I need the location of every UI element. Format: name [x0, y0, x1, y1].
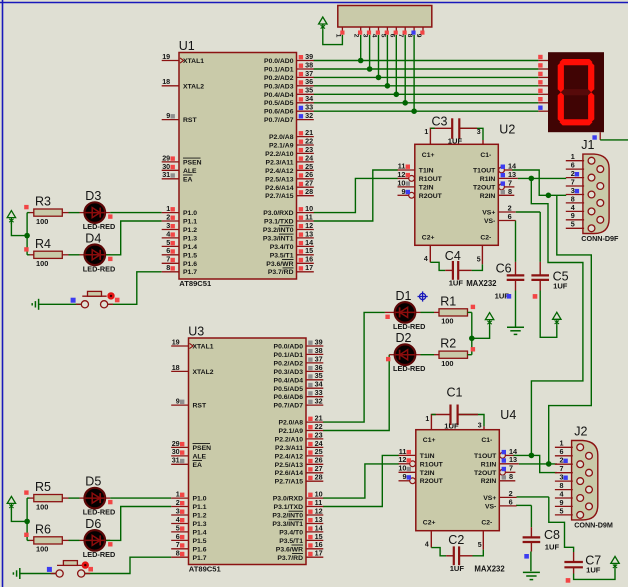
svg-text:CONN-D9M: CONN-D9M: [574, 520, 613, 529]
svg-text:7: 7: [397, 34, 404, 38]
svg-text:VS+: VS+: [483, 495, 496, 502]
svg-text:R2: R2: [440, 337, 456, 351]
svg-text:P2.3/A11: P2.3/A11: [266, 159, 294, 166]
svg-text:P1.3: P1.3: [193, 521, 207, 528]
svg-text:MAX232: MAX232: [474, 564, 505, 573]
svg-text:P1.1: P1.1: [183, 219, 197, 226]
svg-text:100: 100: [36, 259, 48, 268]
svg-text:ALE: ALE: [183, 168, 197, 175]
svg-text:T2OUT: T2OUT: [474, 470, 497, 477]
svg-text:P3.3/INT1: P3.3/INT1: [272, 521, 303, 528]
svg-text:T1OUT: T1OUT: [474, 453, 497, 460]
svg-text:P0.1/AD1: P0.1/AD1: [264, 67, 294, 74]
svg-text:P3.3/INT1: P3.3/INT1: [263, 235, 294, 242]
svg-text:6: 6: [508, 212, 512, 221]
svg-text:9: 9: [415, 34, 422, 38]
svg-text:C2-: C2-: [481, 520, 492, 527]
svg-text:1: 1: [335, 34, 342, 38]
svg-text:EA: EA: [183, 176, 193, 183]
svg-text:C1: C1: [447, 386, 463, 400]
svg-text:LED-RED: LED-RED: [83, 264, 115, 273]
svg-text:R2OUT: R2OUT: [420, 478, 444, 485]
svg-text:8: 8: [166, 263, 170, 272]
svg-text:19: 19: [162, 52, 170, 61]
svg-text:D2: D2: [396, 331, 412, 345]
svg-text:XTAL2: XTAL2: [183, 83, 204, 90]
svg-text:P0.2/AD2: P0.2/AD2: [264, 75, 294, 82]
svg-text:P0.5/AD5: P0.5/AD5: [264, 100, 294, 107]
svg-text:9: 9: [401, 187, 405, 196]
svg-text:P3.1/TXD: P3.1/TXD: [264, 219, 294, 226]
svg-text:C8: C8: [544, 528, 560, 542]
svg-text:C3: C3: [432, 115, 448, 129]
svg-text:P2.2/A10: P2.2/A10: [275, 436, 304, 443]
svg-text:LED-RED: LED-RED: [83, 508, 115, 517]
svg-text:T1OUT: T1OUT: [473, 168, 496, 175]
svg-text:P1.7: P1.7: [193, 555, 207, 562]
svg-text:D3: D3: [85, 189, 101, 203]
svg-text:17: 17: [305, 263, 313, 272]
svg-text:VS-: VS-: [485, 503, 496, 510]
svg-text:C1-: C1-: [481, 437, 492, 444]
svg-text:P1.0: P1.0: [183, 210, 197, 217]
svg-text:6: 6: [509, 497, 513, 506]
svg-text:T2IN: T2IN: [420, 470, 435, 477]
svg-text:C1+: C1+: [423, 437, 436, 444]
svg-text:100: 100: [441, 317, 453, 326]
svg-text:U2: U2: [499, 123, 515, 137]
svg-text:P2.5/A13: P2.5/A13: [265, 176, 294, 183]
svg-text:T1IN: T1IN: [420, 453, 435, 460]
svg-text:18: 18: [162, 77, 170, 86]
svg-text:P0.2/AD2: P0.2/AD2: [274, 360, 304, 367]
svg-text:1UF: 1UF: [553, 282, 568, 291]
svg-text:32: 32: [315, 397, 323, 406]
svg-text:D6: D6: [85, 517, 101, 531]
svg-text:P0.7/AD7: P0.7/AD7: [274, 403, 304, 410]
svg-text:R1IN: R1IN: [481, 461, 497, 468]
svg-text:28: 28: [315, 473, 323, 482]
svg-text:P1.5: P1.5: [193, 538, 207, 545]
svg-text:C2+: C2+: [423, 520, 436, 527]
svg-text:1UF: 1UF: [450, 564, 465, 573]
svg-text:P1.7: P1.7: [183, 269, 197, 276]
svg-text:P3.7/RD: P3.7/RD: [277, 555, 303, 562]
svg-text:P0.4/AD4: P0.4/AD4: [274, 377, 304, 384]
svg-text:LED-RED: LED-RED: [83, 222, 115, 231]
svg-text:R1OUT: R1OUT: [420, 461, 444, 468]
svg-text:EA: EA: [193, 462, 203, 469]
svg-text:D1: D1: [396, 289, 412, 303]
svg-text:D5: D5: [85, 475, 101, 489]
svg-text:CONN-D9F: CONN-D9F: [581, 234, 619, 243]
svg-text:P0.1/AD1: P0.1/AD1: [274, 352, 304, 359]
svg-text:AT89C51: AT89C51: [179, 279, 212, 288]
svg-text:P0.4/AD4: P0.4/AD4: [264, 92, 294, 99]
svg-text:32: 32: [305, 111, 313, 120]
svg-text:P2.0/A8: P2.0/A8: [278, 420, 303, 427]
svg-text:P2.2/A10: P2.2/A10: [265, 151, 294, 158]
svg-text:100: 100: [441, 359, 453, 368]
svg-text:8: 8: [406, 34, 413, 38]
svg-text:P3.2/INT0: P3.2/INT0: [263, 227, 294, 234]
svg-text:P1.4: P1.4: [183, 244, 197, 251]
svg-text:LED-RED: LED-RED: [393, 364, 425, 373]
svg-text:P0.6/AD6: P0.6/AD6: [264, 109, 294, 116]
svg-text:1UF: 1UF: [586, 565, 601, 574]
svg-text:U4: U4: [500, 408, 516, 422]
svg-text:31: 31: [172, 456, 180, 465]
svg-text:C1-: C1-: [480, 152, 491, 159]
svg-text:P3.6/WR: P3.6/WR: [276, 546, 303, 553]
svg-text:C4: C4: [445, 249, 461, 263]
svg-text:P1.2: P1.2: [193, 513, 207, 520]
svg-text:8: 8: [176, 549, 180, 558]
svg-text:P2.6/A14: P2.6/A14: [265, 185, 294, 192]
svg-text:P3.0/RXD: P3.0/RXD: [273, 496, 303, 503]
svg-text:8: 8: [509, 472, 513, 481]
svg-text:P3.0/RXD: P3.0/RXD: [263, 210, 293, 217]
svg-text:C6: C6: [496, 262, 512, 276]
svg-text:PSEN: PSEN: [193, 445, 212, 452]
svg-text:RST: RST: [193, 403, 207, 410]
svg-text:1UF: 1UF: [545, 543, 560, 552]
svg-text:R1OUT: R1OUT: [419, 176, 443, 183]
svg-text:P3.2/INT0: P3.2/INT0: [272, 513, 303, 520]
svg-text:P3.4/T0: P3.4/T0: [279, 529, 303, 536]
svg-text:VS+: VS+: [482, 210, 495, 217]
svg-text:T1IN: T1IN: [419, 168, 434, 175]
svg-text:T2IN: T2IN: [419, 184, 434, 191]
svg-text:1UF: 1UF: [449, 279, 464, 288]
svg-text:RST: RST: [183, 117, 197, 124]
svg-text:100: 100: [36, 545, 48, 554]
svg-text:5: 5: [379, 34, 386, 38]
svg-text:P1.0: P1.0: [193, 496, 207, 503]
svg-text:C1+: C1+: [422, 152, 435, 159]
svg-text:P1.6: P1.6: [183, 261, 197, 268]
svg-text:P0.0/AD0: P0.0/AD0: [264, 58, 294, 65]
svg-text:LED-RED: LED-RED: [393, 322, 425, 331]
svg-text:P1.3: P1.3: [183, 235, 197, 242]
svg-text:6: 6: [388, 34, 395, 38]
svg-text:4: 4: [371, 34, 378, 38]
svg-text:P2.4/A12: P2.4/A12: [275, 453, 304, 460]
svg-text:U1: U1: [179, 39, 195, 53]
svg-text:3: 3: [362, 34, 369, 38]
svg-text:P2.7/A15: P2.7/A15: [275, 479, 304, 486]
svg-text:T2OUT: T2OUT: [473, 184, 496, 191]
svg-text:R1IN: R1IN: [480, 176, 496, 183]
svg-text:P3.6/WR: P3.6/WR: [266, 261, 293, 268]
svg-text:P0.3/AD3: P0.3/AD3: [264, 83, 294, 90]
svg-text:PSEN: PSEN: [183, 159, 202, 166]
svg-text:5: 5: [478, 542, 482, 549]
svg-text:4: 4: [425, 542, 429, 549]
svg-text:5: 5: [560, 506, 564, 515]
svg-text:P1.5: P1.5: [183, 252, 197, 259]
svg-text:C2: C2: [448, 533, 464, 547]
svg-text:P0.6/AD6: P0.6/AD6: [274, 394, 304, 401]
svg-text:D4: D4: [85, 231, 101, 245]
svg-text:MAX232: MAX232: [466, 279, 497, 288]
svg-text:R6: R6: [35, 522, 51, 536]
svg-text:U3: U3: [188, 325, 204, 339]
svg-text:3: 3: [478, 423, 482, 430]
svg-text:5: 5: [477, 256, 481, 263]
svg-text:VS-: VS-: [484, 218, 495, 225]
svg-text:P2.1/A9: P2.1/A9: [278, 428, 303, 435]
svg-text:LED-RED: LED-RED: [83, 550, 115, 559]
svg-text:P2.0/A8: P2.0/A8: [269, 134, 294, 141]
svg-text:P2.4/A12: P2.4/A12: [265, 168, 294, 175]
svg-text:ALE: ALE: [193, 453, 207, 460]
svg-text:P3.5/T1: P3.5/T1: [270, 252, 294, 259]
svg-text:XTAL1: XTAL1: [193, 344, 214, 351]
svg-text:P0.3/AD3: P0.3/AD3: [274, 369, 304, 376]
svg-text:8: 8: [508, 187, 512, 196]
svg-text:P3.5/T1: P3.5/T1: [279, 538, 303, 545]
svg-text:P3.7/RD: P3.7/RD: [268, 269, 294, 276]
svg-text:P0.5/AD5: P0.5/AD5: [274, 386, 304, 393]
svg-text:5: 5: [571, 220, 575, 229]
svg-text:9: 9: [402, 472, 406, 481]
svg-text:4: 4: [424, 256, 428, 263]
svg-text:R1: R1: [440, 294, 456, 308]
svg-text:P1.4: P1.4: [193, 529, 207, 536]
svg-text:P2.7/A15: P2.7/A15: [265, 193, 294, 200]
svg-text:J2: J2: [574, 425, 587, 439]
svg-text:P1.6: P1.6: [193, 546, 207, 553]
svg-text:9: 9: [166, 111, 170, 120]
svg-text:XTAL1: XTAL1: [183, 58, 204, 65]
svg-text:9: 9: [176, 397, 180, 406]
svg-text:P2.5/A13: P2.5/A13: [275, 462, 304, 469]
svg-text:28: 28: [305, 187, 313, 196]
svg-text:R2OUT: R2OUT: [419, 193, 443, 200]
svg-text:R2IN: R2IN: [481, 478, 497, 485]
svg-text:100: 100: [36, 217, 48, 226]
svg-text:2: 2: [353, 34, 360, 38]
svg-text:19: 19: [172, 337, 180, 346]
svg-text:P1.1: P1.1: [193, 504, 207, 511]
svg-text:31: 31: [162, 170, 170, 179]
svg-text:P3.1/TXD: P3.1/TXD: [274, 504, 304, 511]
svg-text:P2.1/A9: P2.1/A9: [269, 143, 294, 150]
svg-text:C2+: C2+: [422, 234, 435, 241]
svg-text:P1.2: P1.2: [183, 227, 197, 234]
svg-text:100: 100: [36, 502, 48, 511]
svg-text:J1: J1: [581, 138, 594, 152]
svg-text:P0.0/AD0: P0.0/AD0: [274, 344, 304, 351]
svg-text:18: 18: [172, 363, 180, 372]
svg-text:R5: R5: [35, 480, 51, 494]
svg-text:C2-: C2-: [480, 234, 491, 241]
svg-text:P2.3/A11: P2.3/A11: [275, 445, 303, 452]
svg-text:R2IN: R2IN: [480, 193, 496, 200]
svg-text:XTAL2: XTAL2: [193, 369, 214, 376]
svg-text:P3.4/T0: P3.4/T0: [270, 244, 294, 251]
svg-text:1: 1: [424, 129, 428, 136]
svg-text:1: 1: [425, 416, 429, 423]
svg-text:R4: R4: [35, 237, 51, 251]
svg-text:17: 17: [315, 549, 323, 558]
svg-text:AT89C51: AT89C51: [189, 564, 222, 573]
svg-text:3: 3: [477, 129, 481, 136]
svg-text:P0.7/AD7: P0.7/AD7: [264, 117, 294, 124]
svg-text:R3: R3: [35, 195, 51, 209]
svg-text:P2.6/A14: P2.6/A14: [275, 470, 304, 477]
